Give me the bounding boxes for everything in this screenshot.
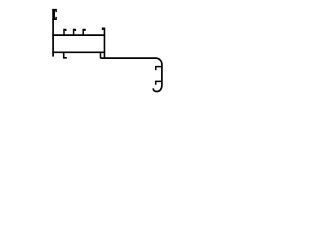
left vertical wall (52, 9, 54, 57)
hook tooth 3 (83, 29, 85, 34)
inner tick bottom (156, 81, 162, 84)
bottom rail (52, 51, 105, 53)
C-clip bottom flange with lip (52, 17, 56, 19)
right corner vertical with left-facing hook (103, 28, 105, 58)
stub connector (100, 52, 102, 58)
L step below bottom rail (64, 52, 67, 58)
C-clip web (inner back line) (53, 10, 55, 20)
hook tooth 1 (64, 29, 66, 34)
C-clip top flange with lip (52, 10, 56, 13)
hook tooth 2 (74, 29, 76, 34)
top rail (52, 34, 105, 36)
long bottom flange with J-hook wall (100, 58, 161, 91)
inner tick top (156, 67, 162, 71)
